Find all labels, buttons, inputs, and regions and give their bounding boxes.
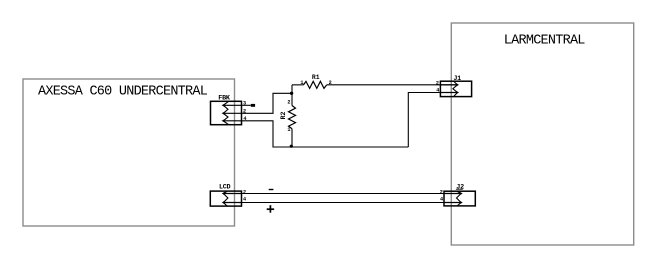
- plus label: [267, 205, 274, 213]
- wire FBK pin4 down and along bottom: [242, 121, 409, 147]
- connector LCD: [210, 191, 241, 206]
- svg-text:R1: R1: [312, 74, 320, 81]
- svg-text:LCD: LCD: [219, 184, 231, 192]
- wire node A vertical (R1 left / R2 top): [291, 85, 293, 106]
- svg-text:1: 1: [287, 127, 290, 133]
- connector FBK: [211, 101, 242, 124]
- svg-text:2: 2: [440, 189, 443, 195]
- wire R2 bottom to node B: [291, 129, 293, 147]
- svg-text:2: 2: [436, 80, 439, 86]
- wire LCD pin2 to J2 pin2 (minus net): [223, 193, 461, 195]
- svg-text:LARMCENTRAL: LARMCENTRAL: [504, 33, 586, 48]
- svg-text:AXESSA C60 UNDERCENTRAL: AXESSA C60 UNDERCENTRAL: [38, 85, 208, 100]
- svg-text:1: 1: [300, 80, 303, 86]
- connector J1: [440, 81, 471, 96]
- wire LCD pin4 to J2 pin4 (plus net): [223, 202, 461, 204]
- wire up to J1 pin4: [408, 93, 457, 148]
- box AXESSA C60 UNDERCENTRAL: [23, 79, 235, 226]
- resistor R1: [304, 81, 327, 88]
- minus label: [269, 189, 274, 191]
- svg-text:R2: R2: [280, 112, 287, 120]
- svg-text:2: 2: [287, 100, 290, 106]
- svg-text:2: 2: [243, 189, 246, 195]
- wire FBK pin2 to node A: [242, 93, 293, 113]
- wire to R1 pin1: [292, 84, 304, 86]
- svg-text:FBK: FBK: [218, 94, 231, 102]
- svg-text:4: 4: [243, 197, 246, 203]
- no-connect square on FBK pin3: [251, 104, 255, 107]
- svg-text:J1: J1: [453, 75, 461, 83]
- box LARMCENTRAL: [451, 23, 633, 245]
- connector J2: [444, 191, 475, 206]
- wire FBK pin3 stub: [242, 104, 251, 106]
- resistor R2: [289, 106, 296, 129]
- svg-text:4: 4: [440, 197, 443, 203]
- svg-text:J2: J2: [456, 184, 464, 192]
- junction node A: [290, 92, 293, 95]
- junction node B: [290, 145, 293, 148]
- svg-text:4: 4: [436, 88, 439, 94]
- wire R1 pin2 to J1 pin2: [327, 84, 458, 86]
